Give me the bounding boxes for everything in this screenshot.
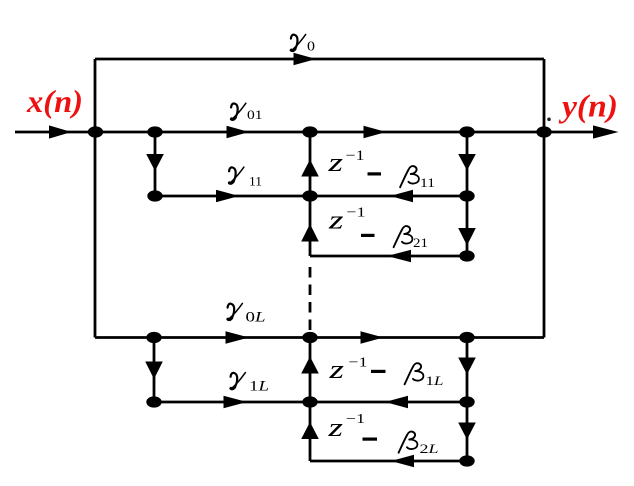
wire left vertical x=95 (94, 59, 97, 338)
arrow down F' to I' (458, 423, 476, 440)
node G output junction (536, 126, 551, 137)
wire vertical H' to D' feedback (309, 338, 312, 403)
arrow beta1L left (385, 396, 408, 409)
arrow up H to D (301, 160, 319, 177)
label minus row3 (371, 370, 386, 373)
label gamma11 (229, 167, 244, 183)
svg-text:z: z (327, 413, 343, 442)
svg-text:z: z (327, 148, 343, 177)
arrow up corner' to H' (301, 422, 319, 439)
arrow gamma01 right (227, 126, 250, 139)
svg-text:x(n): x(n) (26, 83, 83, 119)
svg-text:−1: −1 (346, 412, 365, 427)
label minus row4 (363, 438, 378, 441)
node F' (459, 396, 474, 407)
svg-text:−1: −1 (347, 206, 366, 221)
wire main input line y=132 (15, 131, 606, 134)
arrow gamma11 right (216, 190, 239, 203)
arrow output right (593, 125, 619, 138)
node B (147, 126, 162, 137)
label minus row1 (368, 172, 382, 175)
label beta21 (394, 226, 413, 247)
node D' (302, 332, 317, 343)
label beta1L (405, 363, 424, 384)
node C (147, 190, 162, 201)
arrow up H' to D' (301, 357, 319, 374)
arrow main mid-bottom right (361, 331, 384, 344)
svg-text:0: 0 (307, 40, 315, 55)
label minus row2 (361, 234, 375, 237)
svg-text:z: z (328, 355, 344, 384)
wire vertical E to F (466, 132, 469, 196)
node E' (459, 332, 474, 343)
arrow down E to F (458, 154, 476, 171)
wire dashed ellipsis continuation (309, 267, 312, 333)
node B' (146, 332, 161, 343)
arrow beta2L left (391, 455, 414, 468)
arrow gamma1L right (224, 396, 248, 409)
svg-text:−1: −1 (346, 148, 365, 164)
node E (459, 126, 474, 137)
svg-text:01: 01 (247, 107, 263, 122)
label beta11 (400, 166, 419, 187)
wire vertical F' to I' (466, 402, 469, 461)
node C' (146, 396, 161, 407)
label gamma0 (291, 34, 306, 50)
svg-text:0L: 0L (246, 310, 266, 326)
arrow down B' to C' (145, 362, 163, 380)
wire row gamma1L/beta1L line y=402 (154, 401, 467, 404)
arrow input right (49, 125, 72, 138)
svg-text:11: 11 (249, 174, 262, 189)
arrow main mid-top right (364, 126, 387, 139)
arrow beta21 left (387, 250, 411, 263)
svg-text:1L: 1L (426, 373, 444, 388)
node H' (302, 396, 317, 407)
wire row2 gamma11/beta11 line y=196 (155, 195, 467, 198)
wire vertical B' to C' (153, 338, 156, 403)
arrow down E' to F' (458, 358, 476, 375)
svg-text:21: 21 (413, 235, 428, 250)
wire vertical corner' to H' feedback (309, 402, 312, 461)
wire beta2L line y=461 (310, 460, 467, 463)
svg-text:11: 11 (420, 175, 435, 190)
node H (302, 190, 317, 201)
svg-text:−1: −1 (349, 356, 368, 371)
node I' (459, 455, 474, 466)
node F (459, 190, 474, 201)
arrow gamma0L right (226, 331, 250, 344)
node A input junction (88, 126, 103, 137)
label gamma1L (231, 373, 246, 389)
node I (459, 250, 474, 261)
node D (302, 126, 317, 137)
wire vertical H to D feedback (309, 132, 312, 196)
arrow down F to I (458, 228, 476, 246)
svg-text:y(n): y(n) (558, 88, 618, 124)
wire beta21 line y=256 (310, 255, 467, 258)
svg-text:2L: 2L (420, 441, 439, 456)
svg-text:z: z (328, 206, 344, 235)
wire vertical E' to F' (466, 338, 469, 403)
wire vertical F to I (466, 196, 469, 256)
wire bottom main line y=337.5 (95, 336, 544, 339)
wire right vertical x=544 (543, 59, 546, 338)
wire vertical B to C (154, 132, 157, 196)
wire top gamma0 branch y=59 (95, 58, 544, 61)
arrow up corner to H (301, 224, 319, 242)
arrow gamma0 right (294, 53, 317, 66)
label separator dot before y(n) (547, 118, 551, 122)
label beta2L (399, 432, 418, 453)
label gamma0L (228, 303, 243, 319)
svg-text:1L: 1L (249, 379, 269, 395)
arrow beta11 left (390, 190, 413, 203)
arrow down B to C (146, 154, 164, 171)
wire vertical corner to H feedback (309, 196, 312, 256)
label gamma01 (231, 103, 246, 119)
